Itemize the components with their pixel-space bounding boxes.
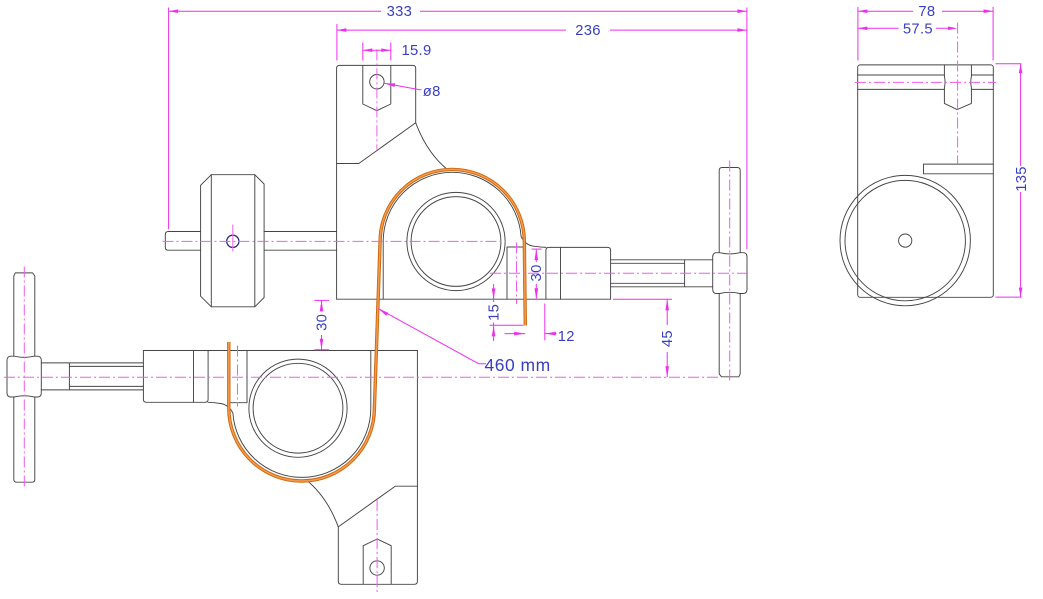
dim 333 line (169, 10, 747, 12)
svg-text:78: 78 (918, 4, 935, 20)
svg-text:236: 236 (575, 23, 601, 39)
arrows 236 (337, 28, 347, 32)
dim 460mm leader (378, 309, 486, 364)
upper clamp tab hole ø8 (370, 75, 384, 89)
side view upper horizontal edges (858, 75, 994, 89)
arrows 45 (665, 299, 669, 310)
lower clamp screw shaft (41, 363, 143, 390)
arrows 12 (514, 332, 525, 336)
svg-text:45: 45 (660, 330, 676, 347)
upper screw axis centerline (490, 272, 749, 274)
arrows 57.5 (858, 27, 868, 31)
dim 12 extension (544, 304, 546, 341)
upper clamp jaw pocket (507, 247, 524, 299)
dimensions (169, 7, 1022, 377)
lower clamp bore (249, 359, 347, 457)
dim 236 line (337, 29, 747, 31)
lower clamp T-handle bar (14, 397, 35, 482)
side view body rectangle (858, 65, 994, 297)
svg-text:15: 15 (487, 304, 503, 321)
dimension texts (315, 4, 1030, 375)
svg-text:ø8: ø8 (423, 84, 441, 100)
dim 15 line and extension (490, 284, 524, 341)
upper clamp bore (double circle) (407, 192, 505, 290)
svg-text:15.9: 15.9 (402, 43, 432, 59)
side view slot centerline (957, 23, 959, 164)
dim 78 line (858, 10, 993, 12)
right side view (840, 65, 993, 306)
upper clamp boss outline with fillet to nut block (383, 172, 546, 299)
dim 45 top extension (613, 298, 672, 300)
arrows 135 (1019, 64, 1023, 73)
lower screw axis centerline (4, 376, 718, 378)
upper T-bar centerline (729, 161, 731, 384)
dim 15.9 extension lines (363, 43, 391, 61)
upper clamp roller axle rod (264, 232, 337, 251)
arrows 333 (169, 9, 179, 13)
roller axle center circle (227, 235, 239, 247)
lower clamp tab hole (370, 561, 384, 575)
arrows 30 jaw (535, 249, 539, 260)
side view roller circles (840, 175, 970, 305)
dim 30 jaw line (535, 249, 537, 299)
arrows 30 left (320, 300, 324, 311)
upper clamp tab slot (363, 66, 391, 111)
arrow ø8 (384, 83, 395, 87)
dim 135 line (1020, 64, 1022, 297)
dim 30 left extensions (314, 300, 329, 349)
dim 45 line (666, 299, 668, 377)
lower pocket centerline (237, 346, 239, 407)
upper pocket centerline (516, 243, 518, 305)
upper roller axis centerline (163, 240, 507, 242)
dim 236 extension line (336, 24, 338, 61)
dimension arrowheads (169, 9, 1023, 377)
upper clamp nut block (546, 247, 611, 299)
arrows 78 (858, 9, 868, 13)
upper clamp roller axle stub (165, 232, 200, 251)
lower clamp body edge and tab (307, 351, 418, 585)
upper clamp T-handle hub (713, 253, 747, 294)
orange strip 460mm (outer dark stroke) (229, 169, 526, 481)
svg-text:12: 12 (558, 329, 575, 345)
upper clamp body bottom edge (337, 298, 611, 300)
side view roller center hole (899, 234, 912, 247)
upper clamp body left edge and top tab (337, 65, 448, 299)
lower clamp boss outline (208, 351, 371, 478)
dim 57.5 line (858, 27, 948, 29)
dim 333 extension lines (169, 8, 747, 250)
dim 30 left line (321, 300, 323, 349)
side view hinge centerline (855, 81, 996, 83)
lower clamp (upper clamp rotated 180deg) (7, 273, 417, 584)
dim 135 extensions (996, 64, 1022, 297)
lower clamp T-handle hub (7, 356, 41, 397)
dim 30 jaw extension (532, 248, 542, 250)
side view slot (944, 65, 971, 110)
upper clamp tab internal face edges (337, 123, 416, 164)
upper tab centerline (376, 49, 378, 149)
arrows 15 (492, 288, 496, 299)
svg-text:333: 333 (387, 4, 413, 20)
dim ø8 leader (384, 83, 421, 90)
lower T-bar centerline (23, 267, 25, 490)
upper clamp T-handle bar (719, 168, 740, 253)
svg-text:30: 30 (315, 314, 331, 331)
arrows 15.9 (363, 48, 373, 52)
arrow 460mm (378, 309, 388, 316)
lower clamp body top edge (143, 350, 417, 352)
dim 12 line (505, 333, 557, 335)
dim 78 extensions (858, 7, 993, 61)
lower clamp tab slot (363, 539, 391, 584)
lower tab centerline (376, 500, 378, 592)
lower clamp tab internal face edges (338, 486, 417, 527)
dim 15.9 line (363, 49, 391, 51)
lower clamp nut block (143, 351, 208, 403)
upper clamp screw shaft (611, 260, 713, 287)
svg-text:460 mm: 460 mm (485, 355, 551, 375)
svg-text:135: 135 (1014, 166, 1030, 192)
orange strip inner highlight (229, 169, 526, 481)
roller center cross vertical (232, 225, 234, 252)
svg-text:30: 30 (529, 264, 545, 281)
upper clamp roller (octagon drum) (201, 175, 265, 307)
lower clamp jaw pocket (230, 351, 247, 403)
svg-text:57.5: 57.5 (903, 22, 933, 38)
side view jaw groove (924, 164, 994, 174)
